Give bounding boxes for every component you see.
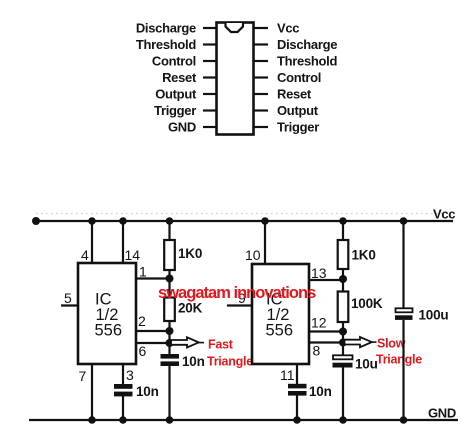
value 100K (R4) [351, 296, 383, 311]
value 1K0 (R3) [352, 248, 376, 263]
svg-text:Vcc: Vcc [277, 21, 299, 36]
svg-text:Fast: Fast [208, 338, 234, 352]
resistor R3 1K0 [338, 240, 349, 269]
left pin 7 lead [203, 126, 217, 128]
value 10u (C3) [355, 357, 378, 372]
output arrow Slow [345, 337, 377, 347]
label GND (left pin 7) [168, 120, 196, 135]
svg-text:10n: 10n [182, 354, 205, 369]
op IC1 1/2 556 box [78, 263, 136, 364]
label Vcc [433, 207, 455, 222]
label Fast (red) [208, 338, 234, 352]
svg-text:12: 12 [311, 315, 327, 331]
pin number 14 [125, 247, 141, 263]
label Triangle (red, slow) [376, 353, 422, 367]
node junction rail/C5 [400, 217, 408, 225]
node junction rail/pin14 [119, 217, 127, 225]
wire pin 1 (IC1 to node) [136, 277, 170, 279]
svg-text:Triangle: Triangle [376, 353, 422, 367]
wire C3 to GND rail [342, 368, 344, 421]
node pin13 junction [339, 275, 347, 283]
pin number 13 [311, 265, 327, 281]
node junction rail/pin4 [88, 217, 96, 225]
op IC2 1/2 556 box [252, 264, 309, 364]
svg-text:Threshold: Threshold [136, 37, 196, 52]
node junction rail/pin10 [261, 217, 269, 225]
node junction rail/R1 [166, 217, 174, 225]
node junction GND/C5 [400, 416, 408, 424]
svg-text:100u: 100u [419, 308, 449, 323]
wire R1 to node pin1 [168, 270, 170, 298]
svg-text:8: 8 [313, 343, 321, 359]
svg-text:6: 6 [139, 343, 147, 359]
node junction GND/pin7 [88, 416, 96, 424]
capacitor C3 10u polarized [333, 355, 353, 367]
svg-text:1K0: 1K0 [178, 246, 202, 261]
label GND [428, 406, 456, 421]
node junction GND/C1 [166, 416, 174, 424]
pin number 10 [245, 247, 261, 263]
label Triangle (red) [207, 355, 253, 369]
wire pin 5 stub [61, 304, 78, 306]
pin number 8 [313, 343, 321, 359]
wire node to C3 [342, 343, 344, 357]
svg-text:3: 3 [126, 367, 134, 383]
pin number 6 [139, 343, 147, 359]
wire Vcc rail to C5 [402, 221, 404, 309]
label Output (right pin 6) [277, 103, 319, 118]
value 10n (C2) [136, 384, 159, 399]
right pin lead Discharge [254, 43, 268, 45]
node pin2 junction [166, 327, 174, 335]
left pin 4 lead [203, 76, 217, 78]
wire pin 7 (IC1 bottom to GND rail) [91, 364, 93, 420]
svg-text:100K: 100K [351, 296, 383, 311]
label Slow (red) [377, 337, 406, 351]
label Vcc (right pin 1) [277, 21, 299, 36]
svg-text:11: 11 [280, 367, 295, 383]
wire pin 9 stub [227, 304, 252, 306]
node junction GND/C4 [293, 416, 301, 424]
svg-text:10n: 10n [136, 384, 159, 399]
node pin8 junction [339, 339, 347, 347]
left pin 2 lead [203, 43, 217, 45]
capacitor C5 100u polarized [395, 308, 413, 320]
wire R4 to node pin12 [342, 322, 344, 343]
svg-text:7: 7 [79, 368, 87, 384]
wire pin 3 (IC1 bottom to C2) [122, 364, 124, 385]
capacitor C1 10n [161, 354, 180, 366]
svg-text:Slow: Slow [377, 337, 406, 351]
label Trigger (left pin 6) [154, 103, 196, 118]
label Trigger (right pin 7) [277, 120, 319, 135]
pin-1 notch [226, 23, 244, 32]
pin number 12 [311, 315, 327, 331]
wire pin 14 (Vcc rail to IC1 top) [122, 221, 124, 263]
svg-text:556: 556 [95, 322, 123, 340]
wire pin 4 (Vcc rail to IC1 top) [91, 221, 93, 263]
wire R3 to node pin13 [342, 269, 344, 292]
svg-text:10n: 10n [309, 384, 332, 399]
value 10n (C4) [309, 384, 332, 399]
svg-text:Threshold: Threshold [277, 54, 337, 69]
svg-text:4: 4 [81, 247, 89, 263]
svg-text:GND: GND [428, 406, 456, 421]
svg-text:10u: 10u [355, 357, 378, 372]
svg-text:Reset: Reset [162, 70, 197, 85]
wire C1 to GND rail [168, 366, 170, 420]
label Control (left pin 3) [152, 54, 196, 69]
wire pin 6 (IC1 to node) [136, 342, 170, 344]
svg-text:Discharge: Discharge [277, 37, 337, 52]
svg-text:13: 13 [311, 265, 327, 281]
svg-text:20K: 20K [178, 301, 203, 316]
svg-text:Control: Control [277, 70, 321, 85]
node Vcc rail left end [32, 217, 40, 225]
node junction GND/C2 [119, 416, 127, 424]
resistor R4 100K [338, 292, 349, 323]
wire Vcc rail to R3 [342, 221, 344, 241]
value 1K0 (R1) [178, 246, 202, 261]
node pin1 junction [166, 275, 174, 283]
svg-text:Output: Output [277, 103, 319, 118]
value 100u (C5) [419, 308, 449, 323]
node pin12 junction [339, 328, 347, 336]
wire node to C1 [168, 343, 170, 355]
left pin 1 lead [203, 27, 217, 29]
label Control (right pin 4) [277, 70, 321, 85]
label Threshold (right pin 3) [277, 54, 337, 69]
wire C2 to GND rail [122, 396, 124, 420]
right pin lead Reset [254, 93, 268, 95]
resistor R1 1K0 [164, 240, 175, 270]
watermark swagatam innovations (red) [158, 284, 316, 302]
svg-text:Discharge: Discharge [136, 21, 196, 36]
label Reset (right pin 5) [277, 87, 312, 102]
wire pin 10 (Vcc rail to IC2 top) [264, 221, 266, 264]
svg-text:swagatam innovations: swagatam innovations [158, 284, 316, 302]
node junction rail/R3 [339, 217, 347, 225]
capacitor C4 10n [288, 384, 307, 396]
right pin lead Control [254, 76, 268, 78]
node junction GND/C3 [339, 416, 347, 424]
pin number 2 [138, 313, 146, 329]
capacitor C2 10n [114, 384, 133, 396]
svg-text:Reset: Reset [277, 87, 312, 102]
right pin lead Threshold [254, 60, 268, 62]
wire pin 8 (IC2 to node) [309, 341, 343, 343]
pin number 4 [81, 247, 89, 263]
wire pin 11 (IC2 bottom to C4) [296, 364, 298, 385]
label Output (left pin 5) [155, 87, 197, 102]
wire Vcc rail [34, 220, 453, 222]
svg-text:Vcc: Vcc [433, 207, 455, 222]
svg-text:Triangle: Triangle [207, 355, 253, 369]
right pin lead Output [254, 109, 268, 111]
pin number 3 [126, 367, 134, 383]
wire C4 to GND rail [296, 395, 298, 420]
pin number 9 [238, 290, 246, 306]
label Discharge (left pin 1) [136, 21, 196, 36]
svg-text:1: 1 [139, 264, 147, 280]
label Reset (left pin 4) [162, 70, 197, 85]
svg-text:Control: Control [152, 54, 196, 69]
svg-text:10: 10 [245, 247, 261, 263]
left pin 3 lead [203, 60, 217, 62]
IC package body U1 [217, 23, 254, 135]
label Threshold (left pin 2) [136, 37, 196, 52]
wire pin 12 (IC2 to node) [309, 330, 343, 332]
wire GND rail [29, 419, 458, 421]
pin number 11 [280, 367, 295, 383]
resistor R2 20K [164, 298, 175, 322]
svg-text:Trigger: Trigger [277, 120, 319, 135]
svg-text:5: 5 [64, 290, 72, 306]
pin number 1 [139, 264, 147, 280]
wire Vcc rail to R1 [168, 221, 170, 241]
wire pin 13 (IC2 to node) [309, 279, 343, 281]
right pin lead Trigger [254, 126, 268, 128]
output arrow Fast [171, 337, 204, 347]
value 20K (R2) [178, 301, 203, 316]
left pin 6 lead [203, 109, 217, 111]
svg-text:Trigger: Trigger [154, 103, 196, 118]
svg-text:14: 14 [125, 247, 141, 263]
svg-text:GND: GND [168, 120, 196, 135]
left pin 5 lead [203, 93, 217, 95]
right pin lead Vcc [254, 27, 268, 29]
label Discharge (right pin 2) [277, 37, 337, 52]
wire R2 to node pin2 [168, 321, 170, 343]
svg-text:2: 2 [138, 313, 146, 329]
wire C5 to GND rail [402, 320, 404, 420]
pin number 7 [79, 368, 87, 384]
value 10n (C1) [182, 354, 205, 369]
wire pin 2 (IC1 to node) [136, 330, 170, 332]
svg-text:1K0: 1K0 [352, 248, 376, 263]
svg-text:556: 556 [266, 322, 294, 340]
svg-text:Output: Output [155, 87, 197, 102]
node pin6 junction [166, 339, 174, 347]
pin number 5 [64, 290, 72, 306]
